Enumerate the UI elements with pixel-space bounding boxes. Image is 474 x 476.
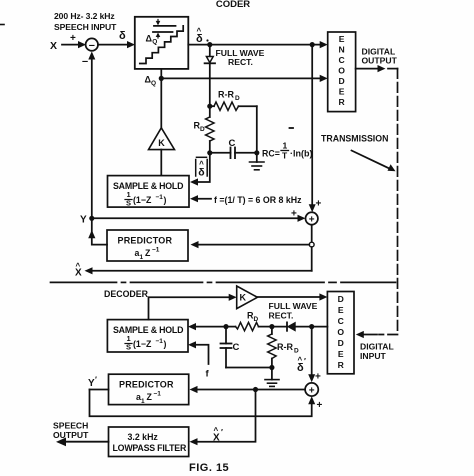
wire adder A1 output down xyxy=(311,225,313,243)
wire predictor output up to Y xyxy=(92,218,107,244)
svg-text:1: 1 xyxy=(283,141,288,151)
svg-text:−1: −1 xyxy=(152,247,160,254)
capacitor C (coder) xyxy=(210,152,231,154)
node junction dot X-hat-prime branch xyxy=(253,387,258,392)
wire tap to predictor input xyxy=(197,244,309,246)
svg-text:SPEECH INPUT: SPEECH INPUT xyxy=(54,22,117,32)
svg-text:RECT.: RECT. xyxy=(228,57,253,67)
wire f clock into sample&hold (decoder) xyxy=(195,345,209,364)
label RD (coder) xyxy=(194,121,206,134)
wire abs(delta-hat) to sample&hold xyxy=(197,153,210,182)
label RD (decoder) xyxy=(247,311,259,324)
svg-text:E: E xyxy=(339,87,345,97)
node junction dot RC xyxy=(254,150,259,155)
svg-text:R-R: R-R xyxy=(218,90,234,100)
svg-text:^: ^ xyxy=(214,426,219,435)
svg-text:SAMPLE & HOLD: SAMPLE & HOLD xyxy=(113,325,183,335)
svg-text:−1: −1 xyxy=(154,391,162,398)
adder A2 (decoder) xyxy=(305,383,318,396)
svg-text:SPEECH: SPEECH xyxy=(53,421,88,431)
svg-text:R: R xyxy=(338,360,345,370)
wire f clock into sample&hold (coder) xyxy=(197,198,212,200)
wire delta-hat down to adder A1 xyxy=(311,45,313,206)
svg-text:E: E xyxy=(338,349,344,359)
quantizer step-size annotation lines xyxy=(154,25,176,27)
svg-text:Q: Q xyxy=(152,39,157,46)
svg-text:(1−Z: (1−Z xyxy=(133,339,152,349)
quantizer delta-Q label xyxy=(146,34,158,46)
svg-text:−1: −1 xyxy=(156,194,164,201)
svg-text:C: C xyxy=(233,342,240,353)
svg-text:−1: −1 xyxy=(156,338,164,345)
svg-text:^: ^ xyxy=(76,262,81,271)
ground (coder RC network) xyxy=(256,153,258,162)
label DIGITAL INPUT xyxy=(360,342,394,362)
summing junction S1 (subtractor) xyxy=(86,38,98,50)
svg-text:δ: δ xyxy=(119,30,126,42)
sample & hold box (decoder) xyxy=(107,320,188,352)
svg-text:): ) xyxy=(164,195,167,205)
label 200 Hz - 3.2 kHz SPEECH INPUT xyxy=(54,11,117,32)
svg-text:RC=: RC= xyxy=(262,149,280,159)
amplifier K (coder) xyxy=(149,128,175,150)
svg-text:INPUT: INPUT xyxy=(360,351,387,361)
wire K to sample&hold xyxy=(160,150,162,176)
svg-text:CODER: CODER xyxy=(216,0,250,10)
label R-RD (decoder) xyxy=(277,342,299,355)
node junction dot RD bottom xyxy=(207,150,212,155)
node tap (open circle) xyxy=(309,242,314,247)
predictor box (decoder) xyxy=(109,374,189,404)
resistor RD vertical (coder) xyxy=(209,106,211,117)
svg-text:+: + xyxy=(317,400,323,411)
svg-text:N: N xyxy=(338,45,344,55)
svg-text:1: 1 xyxy=(140,254,144,261)
wire delta-hat-prime down to adder A2 xyxy=(311,327,313,376)
node Y junction xyxy=(89,216,94,221)
label SPEECH OUTPUT xyxy=(53,421,89,441)
separator dash-dot line xyxy=(51,281,396,283)
wire R-RD right down to RC node xyxy=(256,106,258,153)
stray scan mark near transmission line xyxy=(290,127,294,129)
wire quantizer bottom to delta-Q node xyxy=(160,69,162,128)
ground (decoder) xyxy=(271,368,273,380)
lowpass filter box xyxy=(109,427,189,457)
wire delta-hat node down to diode xyxy=(209,45,211,57)
svg-text:K: K xyxy=(158,138,165,148)
label R-RD (coder) xyxy=(218,90,240,103)
node junction dot delta-hat-prime xyxy=(309,324,314,329)
node delta-hat label xyxy=(196,27,209,46)
svg-text:O: O xyxy=(337,327,344,337)
svg-text:D: D xyxy=(338,76,344,86)
svg-text:R-R: R-R xyxy=(277,342,293,352)
svg-text:LOWPASS FILTER: LOWPASS FILTER xyxy=(113,443,187,453)
svg-text:TRANSMISSION: TRANSMISSION xyxy=(321,134,388,144)
svg-text:D: D xyxy=(235,95,240,102)
label FULL WAVE RECT. (coder) xyxy=(216,48,265,67)
decoder box xyxy=(327,292,354,374)
svg-text:1: 1 xyxy=(141,398,145,405)
svg-text:200 Hz- 3.2 kHz: 200 Hz- 3.2 kHz xyxy=(54,11,115,21)
svg-text:+: + xyxy=(309,214,315,225)
svg-text:C: C xyxy=(338,55,344,65)
wire delta-Q to encoder xyxy=(161,77,321,79)
node junction dot C top (decoder) xyxy=(223,324,228,329)
wire delta to quantizer xyxy=(98,44,129,46)
quantizer box xyxy=(135,17,189,69)
label averaged |delta-hat| xyxy=(196,157,208,178)
sample & hold box (coder) xyxy=(108,176,190,208)
svg-text:+: + xyxy=(70,33,76,44)
wire X-hat output xyxy=(91,270,312,272)
svg-text:): ) xyxy=(164,339,167,349)
svg-text:K: K xyxy=(240,292,247,302)
svg-text:RECT.: RECT. xyxy=(269,311,294,321)
label FULL WAVE RECT. (decoder) xyxy=(269,301,318,321)
node junction dot ground (decoder) xyxy=(269,365,274,370)
label DIGITAL OUTPUT xyxy=(362,47,398,66)
svg-text:PREDICTOR: PREDICTOR xyxy=(119,380,174,390)
svg-text:–: – xyxy=(89,40,95,52)
svg-text:3.2 kHz: 3.2 kHz xyxy=(128,432,159,442)
wire Y to adder A1 xyxy=(92,217,299,219)
svg-text:FIG. 15: FIG. 15 xyxy=(189,462,229,474)
svg-text:E: E xyxy=(338,305,344,315)
transmission pointer arrow xyxy=(352,151,391,169)
svg-text:T: T xyxy=(282,151,288,161)
quantizer step-size arrows xyxy=(157,20,159,24)
wire sample&hold output up to K (decoder) xyxy=(149,297,231,319)
svg-text:OUTPUT: OUTPUT xyxy=(362,56,398,66)
amplifier K (decoder) xyxy=(237,286,258,309)
node junction dot at RD top xyxy=(207,104,212,109)
node junction dot delta-hat xyxy=(207,42,212,47)
label delta-hat-prime xyxy=(297,356,306,375)
svg-text:′: ′ xyxy=(304,357,306,366)
wire X-hat-prime down to lowpass filter xyxy=(196,390,256,442)
svg-text:E: E xyxy=(339,34,345,44)
wire digital input arrow xyxy=(362,334,377,336)
diode D1 (full wave rect, coder) xyxy=(206,57,213,63)
wire diode to RD node xyxy=(209,63,211,106)
svg-text:Q: Q xyxy=(151,80,156,87)
svg-text:D: D xyxy=(294,348,299,355)
wire adder A2 output to predictor (decoder) xyxy=(196,389,305,391)
wire delta-hat-prime line from decoder xyxy=(295,326,327,328)
capacitor C (decoder) xyxy=(225,327,227,344)
svg-text:Y: Y xyxy=(88,378,95,389)
svg-text:+: + xyxy=(315,372,321,383)
svg-text:X: X xyxy=(50,40,57,52)
svg-text:O: O xyxy=(338,66,345,76)
svg-text:Z: Z xyxy=(145,248,151,258)
label X-hat-prime xyxy=(213,426,223,444)
svg-text:^: ^ xyxy=(199,160,204,169)
wire K output into decoder box xyxy=(257,296,321,298)
label RC = 1/T ln(b) xyxy=(262,141,313,161)
stray scan mark left edge xyxy=(0,24,4,26)
svg-text:D: D xyxy=(338,294,344,304)
svg-text:SAMPLE & HOLD: SAMPLE & HOLD xyxy=(113,181,183,191)
label Y prime xyxy=(88,376,97,390)
svg-text:D: D xyxy=(338,338,344,348)
label X-hat xyxy=(75,262,82,279)
svg-text:DIGITAL: DIGITAL xyxy=(360,342,394,352)
resistor R-RD horizontal (coder) xyxy=(210,105,214,107)
svg-text:f =(1/ T) = 6 OR 8 kHz: f =(1/ T) = 6 OR 8 kHz xyxy=(214,195,302,205)
svg-text:Z: Z xyxy=(147,392,153,402)
node delta-Q junction dot xyxy=(159,76,164,81)
svg-text:′: ′ xyxy=(221,428,223,437)
wire X into subtractor xyxy=(62,44,79,46)
resistor R-RD vertical (decoder) xyxy=(271,327,273,334)
svg-text:+: + xyxy=(291,209,297,220)
svg-text:+: + xyxy=(309,386,315,397)
label delta-Q xyxy=(145,75,157,88)
svg-text:·ln(b): ·ln(b) xyxy=(290,149,313,159)
svg-text:–: – xyxy=(82,56,88,68)
wire predictor output left (Y prime) xyxy=(90,389,109,391)
wire feedback Y up into subtractor minus input xyxy=(91,59,93,218)
wire predictor feedback into adder A2 bottom xyxy=(90,390,312,417)
svg-text:DECODER: DECODER xyxy=(104,289,149,299)
svg-text:R: R xyxy=(338,97,345,107)
adder A1 (coder) xyxy=(306,212,318,224)
quantizer staircase xyxy=(140,26,183,64)
svg-text:′: ′ xyxy=(95,376,97,385)
node junction dot R-RD top xyxy=(269,324,274,329)
predictor box (coder) xyxy=(107,230,188,261)
svg-text:^: ^ xyxy=(197,27,202,36)
svg-text:OUTPUT: OUTPUT xyxy=(53,430,89,440)
wire digital output arrow xyxy=(356,68,379,70)
resistor RD horizontal (decoder) xyxy=(259,326,272,328)
wire quantizer output to encoder xyxy=(188,44,321,46)
svg-text:FULL WAVE: FULL WAVE xyxy=(269,301,318,311)
wire into sample&hold (decoder) xyxy=(195,326,227,328)
wire speech output arrow xyxy=(63,441,109,443)
diode D2 (full wave rect, decoder) xyxy=(288,323,295,331)
svg-text:^: ^ xyxy=(298,356,303,365)
encoder box xyxy=(328,32,356,112)
transmission dashed line xyxy=(379,69,398,335)
svg-text:C: C xyxy=(338,316,344,326)
svg-text:(1−Z: (1−Z xyxy=(133,195,152,205)
svg-text:Y: Y xyxy=(80,215,87,226)
node junction dot before encoder xyxy=(310,42,315,47)
svg-text:+: + xyxy=(316,199,322,210)
svg-text:PREDICTOR: PREDICTOR xyxy=(118,236,173,246)
